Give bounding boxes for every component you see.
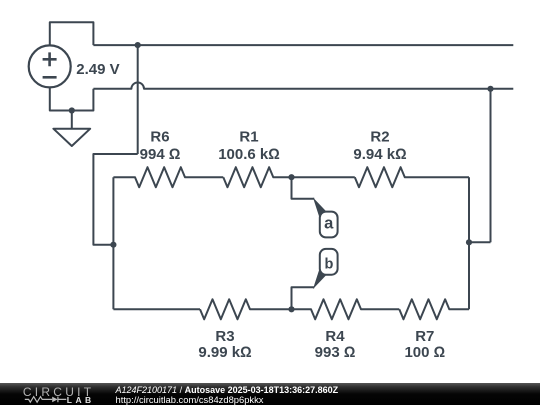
node junction second net — [487, 86, 493, 92]
node junction a — [288, 174, 294, 180]
svg-text:R7: R7 — [415, 328, 434, 345]
wire top horizontal net — [93, 44, 513, 46]
wire vertical from top net junction — [137, 45, 139, 154]
resistor R3 — [200, 299, 292, 319]
resistor R4 — [292, 299, 400, 319]
svg-text:100 Ω: 100 Ω — [404, 344, 445, 361]
wire top loop from source top — [50, 22, 94, 45]
node junction top — [135, 42, 141, 48]
wire left drop to lower-left — [93, 154, 137, 245]
node junction right — [466, 239, 472, 245]
svg-text:http://circuitlab.com/cs84zd8p: http://circuitlab.com/cs84zd8p6pkkx — [116, 394, 264, 405]
node b flag — [320, 249, 338, 275]
wire right link to tall vertical — [469, 89, 491, 243]
svg-text:LAB: LAB — [67, 395, 95, 405]
wire left column down to bottom row — [112, 177, 114, 309]
svg-text:2.49 V: 2.49 V — [76, 61, 119, 78]
svg-text:993 Ω: 993 Ω — [315, 344, 356, 361]
resistor R6 — [113, 167, 223, 187]
footer bar — [0, 383, 540, 405]
footer logo symbol — [25, 397, 67, 403]
ground — [53, 111, 90, 147]
svg-text:R2: R2 — [370, 129, 389, 146]
resistor R2 — [355, 167, 469, 187]
node junction ground — [69, 107, 75, 113]
svg-text:b: b — [324, 256, 333, 272]
wire flag b stem — [292, 287, 315, 309]
wire second horizontal net with hop — [93, 82, 513, 88]
node junction b — [288, 306, 294, 312]
voltage source V1 — [29, 45, 71, 87]
svg-text:994 Ω: 994 Ω — [140, 146, 181, 163]
wire source bottom loop — [50, 87, 94, 110]
svg-text:a: a — [324, 215, 334, 233]
svg-text:R6: R6 — [150, 129, 169, 146]
bottom row wires — [113, 308, 200, 310]
node a flag — [320, 212, 338, 238]
wire flag a stem — [292, 177, 315, 199]
flag b pointer — [313, 267, 327, 289]
node junction left low — [110, 242, 116, 248]
svg-text:9.99 kΩ: 9.99 kΩ — [198, 344, 251, 361]
flag a pointer — [313, 197, 327, 219]
wire right column R2 down — [468, 177, 470, 309]
resistor R1 — [223, 167, 354, 187]
svg-text:9.94 kΩ: 9.94 kΩ — [353, 146, 406, 163]
footer logo diode — [52, 397, 57, 403]
svg-text:100.6 kΩ: 100.6 kΩ — [218, 146, 280, 163]
svg-text:R1: R1 — [239, 129, 258, 146]
resistor R7 — [399, 299, 469, 319]
svg-text:R3: R3 — [215, 328, 234, 345]
svg-text:R4: R4 — [325, 328, 345, 345]
